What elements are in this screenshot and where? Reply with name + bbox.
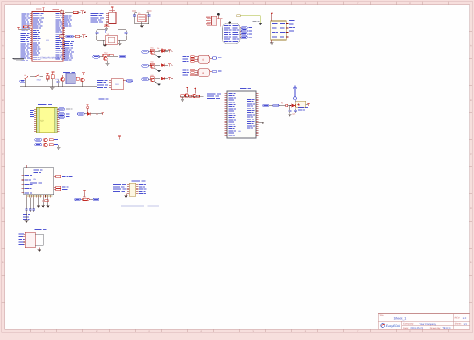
node label chain left	[75, 198, 81, 201]
node GND flag left	[13, 58, 24, 61]
transistor Q1	[99, 52, 113, 64]
connector J2 body	[129, 183, 136, 196]
U4 left pins	[109, 80, 112, 87]
svg-text:C12: C12	[55, 78, 58, 81]
ground Qp	[181, 99, 184, 101]
U9 power VCC	[271, 13, 273, 21]
switch S2	[30, 75, 43, 82]
resistor pack on U1 right edge top	[60, 11, 63, 14]
resistor pack on U1 left edge	[29, 25, 32, 28]
diode D2	[157, 47, 170, 52]
capacitor C17 below U5	[25, 198, 35, 222]
op-amp U5 body	[24, 168, 54, 195]
U6 right pins	[256, 93, 258, 135]
U3B output	[210, 70, 222, 72]
svg-text:F1: F1	[281, 102, 283, 105]
ground chain	[50, 87, 54, 89]
fuse F1	[269, 104, 286, 106]
resistor R31 with VCC	[46, 73, 49, 81]
svg-text:EasyEDA: EasyEDA	[386, 324, 401, 328]
J3 left pins	[23, 234, 26, 244]
U2 left pins	[34, 109, 36, 131]
node left net label	[20, 80, 25, 82]
capacitor C16 below U5	[29, 198, 31, 212]
svg-text:S1: S1	[24, 74, 26, 77]
svg-text:TE12.0: TE12.0	[442, 327, 451, 330]
svg-text:REV:: REV:	[455, 317, 461, 320]
resistor R61	[181, 95, 184, 97]
node VCC dot Qp1	[186, 87, 188, 93]
transistor Q2 driver	[142, 46, 160, 54]
capacitor C15 below U5	[23, 198, 30, 220]
ground Q1	[106, 63, 110, 65]
svg-text:R23: R23	[151, 74, 154, 77]
svg-text:D: D	[470, 207, 472, 210]
op-amp U2 yellow IC body	[37, 108, 58, 133]
svg-text:A: A	[470, 45, 472, 48]
node net label NL1	[93, 55, 100, 58]
capacitor C5 below P1	[105, 24, 111, 31]
J2 right net labels	[139, 184, 147, 194]
U3B input resistor boxes	[183, 69, 198, 76]
U1 left pins	[30, 14, 32, 59]
U4 right pin	[123, 80, 133, 82]
regulator U7 body	[296, 101, 310, 108]
connector J3 body	[25, 232, 35, 247]
capacitor C8	[95, 30, 106, 47]
ground J2	[124, 193, 127, 197]
U5 top stub	[25, 165, 27, 168]
resistor R1 right of U1 top	[65, 11, 85, 14]
U3A output	[210, 57, 222, 59]
svg-text:A: A	[2, 45, 4, 48]
wire U6 right out	[258, 122, 263, 123]
svg-text:C21: C21	[292, 113, 295, 116]
svg-text:SW2: SW2	[37, 79, 41, 82]
resistor R32 with VCC	[51, 72, 54, 87]
U4 left net labels	[97, 80, 108, 88]
EasyEDA logo	[381, 324, 401, 329]
transistor Q8 row	[35, 138, 58, 142]
svg-text:&: &	[202, 58, 204, 61]
node out2 of U2	[59, 113, 70, 116]
U2 right pins	[57, 109, 59, 131]
node VCC dot Qp2	[194, 88, 196, 94]
relay K1 purple box	[63, 72, 75, 84]
svg-text:STM32F103RCT6: STM32F103RCT6	[40, 57, 60, 60]
node out1 of U2	[59, 108, 73, 111]
transistor Q10 pmos	[212, 13, 220, 25]
resistor R35 vertical	[87, 105, 89, 113]
svg-text:Sheet_1: Sheet_1	[394, 316, 407, 320]
op-amp U4 body	[111, 79, 123, 90]
ground J3	[38, 248, 41, 252]
diode D5	[288, 104, 296, 107]
transistor Q7 with VCC	[81, 73, 86, 82]
ground Q2 arrow	[154, 54, 161, 58]
U1 left net labels	[21, 13, 31, 60]
transistor Q6	[61, 75, 65, 82]
node label right of U8	[253, 21, 262, 25]
resistor R62	[189, 95, 192, 97]
node labels above U1	[36, 9, 59, 10]
capacitor C12	[55, 78, 59, 84]
transistor Q13	[185, 94, 189, 98]
node NL9 label	[77, 113, 84, 116]
svg-text:D: D	[2, 207, 4, 210]
U6 title	[240, 88, 251, 89]
svg-text:E: E	[470, 261, 472, 264]
U9 right pins	[286, 24, 288, 38]
resistor R33	[76, 77, 79, 80]
title block frame	[378, 314, 469, 330]
Q10 pin stubs and labels	[206, 17, 222, 27]
J2 right pins	[136, 185, 139, 194]
U2 left net labels	[30, 110, 34, 117]
diode D4 with VCC	[83, 190, 93, 200]
svg-text:1/1: 1/1	[463, 323, 467, 326]
svg-text:Company:: Company:	[403, 323, 414, 326]
J2 title	[131, 181, 145, 182]
connector P1	[91, 7, 117, 23]
ground crystal	[140, 26, 144, 28]
resistor R51 label	[281, 102, 288, 107]
resistor R41 U5 right top	[54, 175, 73, 177]
U6 left pins	[225, 93, 227, 135]
U9 right net labels	[289, 20, 295, 32]
node label top right	[98, 98, 108, 99]
U5 bottom pins	[26, 195, 52, 198]
svg-text:Date:: Date:	[403, 327, 409, 330]
resistor pack on U1 right edge mid	[60, 35, 64, 38]
resistor R42 U5 right bottom	[54, 186, 69, 190]
resistor R44	[81, 196, 88, 201]
op-amp U6 body	[227, 91, 256, 138]
transistor Q9 row	[35, 143, 58, 147]
resistor R63	[196, 95, 199, 97]
node 3V3 label	[298, 107, 308, 110]
U9 ground	[270, 40, 274, 45]
node labels C6 C7	[132, 10, 152, 13]
wire diode output	[91, 113, 104, 116]
svg-text:Your Company: Your Company	[419, 323, 436, 326]
wire J3 right	[35, 234, 43, 245]
svg-text:C: C	[470, 153, 472, 156]
U8 right net ovals	[240, 27, 252, 39]
svg-text:C: C	[2, 153, 4, 156]
op-amp U9 body	[271, 21, 287, 40]
svg-text:R12: R12	[104, 52, 107, 55]
U5 left pins	[21, 175, 32, 193]
op-amp U1 MCU body	[32, 12, 63, 62]
node VCC arrow power	[294, 86, 297, 97]
J2 left net labels	[113, 184, 126, 192]
node label above P1	[109, 10, 115, 11]
U1 top pin stub	[43, 8, 62, 12]
transistor Q14	[192, 94, 196, 98]
ground row below U5	[37, 198, 50, 208]
U1 right net labels rows mid	[64, 41, 74, 61]
inductor L1 circle	[294, 97, 297, 102]
svg-text:2019-05-21: 2019-05-21	[410, 327, 423, 330]
LED D8	[161, 77, 172, 80]
J3 left net labels	[19, 234, 25, 245]
U1 right net labels rows top	[64, 15, 72, 26]
capacitor C21 below regulator	[292, 108, 297, 115]
node output label	[108, 55, 127, 58]
svg-text:B: B	[470, 99, 472, 102]
node label chain right	[93, 198, 99, 201]
op-amp U8 body rounded	[223, 21, 241, 43]
capacitor C20 below power	[288, 106, 291, 117]
switch S1	[24, 74, 28, 81]
transistor Q4 driver	[142, 74, 160, 82]
crystal Y1	[138, 12, 146, 22]
svg-text:D2: D2	[157, 47, 159, 50]
capacitor C6	[133, 13, 137, 24]
resistor R2 right of U1 mid	[66, 35, 87, 38]
LED D6	[161, 50, 172, 53]
wire faint row below J2	[121, 205, 159, 208]
title block texts	[379, 314, 467, 330]
wire yellow-green U8 top	[237, 15, 260, 24]
node out3 of U2	[59, 116, 70, 119]
connector J3 title	[35, 229, 47, 230]
svg-text:1.0: 1.0	[463, 317, 467, 320]
capacitor C9	[118, 30, 128, 45]
svg-text:B: B	[2, 99, 4, 102]
node VCC flag left of U1	[17, 27, 30, 29]
ground Q9	[57, 145, 60, 149]
wire crystal top	[135, 22, 149, 26]
J2 left pins	[127, 185, 130, 194]
transistor Q3 driver	[142, 60, 160, 68]
svg-text:E: E	[2, 261, 4, 264]
capacitor C7	[147, 13, 151, 24]
U3A input resistor boxes	[183, 56, 198, 63]
ground Q4 arrow	[154, 82, 161, 86]
wire bottom bus	[20, 81, 97, 87]
U2 title	[38, 104, 52, 105]
U1 right pins	[63, 14, 65, 59]
svg-text:R22: R22	[151, 60, 154, 63]
wire Qp chain	[180, 96, 203, 99]
svg-text:Drawn By:: Drawn By:	[430, 327, 441, 330]
diode D3	[84, 112, 90, 115]
ground Q3 arrow	[154, 68, 161, 72]
crystal Y2	[105, 33, 117, 45]
node VCC small far right	[118, 136, 121, 140]
svg-text:R21: R21	[151, 46, 154, 49]
node power in label	[263, 104, 269, 107]
resistor R101 at U1 left	[24, 26, 28, 28]
svg-text:Title:: Title:	[379, 314, 384, 317]
AND gate U3A	[198, 55, 210, 63]
svg-text:Sheet:: Sheet:	[455, 323, 462, 326]
LED D7	[161, 64, 172, 67]
svg-text:&: &	[202, 72, 204, 75]
U6 left net labels	[207, 93, 221, 98]
AND gate U3B	[198, 69, 210, 77]
